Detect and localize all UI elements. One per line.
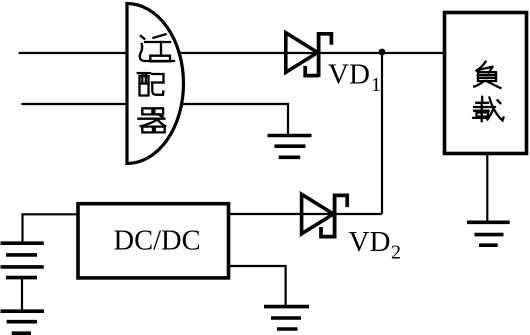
adapter label char 适: [140, 34, 174, 61]
load box: [445, 13, 527, 154]
wire: battery positive to DC/DC input: [23, 214, 80, 243]
ground under load: [467, 222, 510, 245]
wire: DC/DC lower output to ground: [229, 266, 286, 305]
ground under battery: [1, 311, 45, 333]
node: junction dot: [379, 49, 386, 56]
svg-text:VD: VD: [328, 59, 370, 91]
wire: lower input line to adapter: [21, 103, 127, 105]
wire: load box to ground: [486, 154, 488, 223]
ground under DC/DC lower output: [264, 307, 309, 329]
adapter label char 器: [138, 108, 165, 132]
diode VD2 (Schottky): [302, 194, 348, 239]
label DC/DC: [114, 226, 201, 257]
adapter label char 配: [138, 73, 164, 95]
diode VD1 (Schottky): [286, 32, 332, 77]
svg-text:2: 2: [391, 241, 401, 263]
load label char 载: [473, 97, 503, 121]
svg-text:DC/DC: DC/DC: [114, 226, 201, 257]
svg-text:VD: VD: [349, 226, 391, 258]
battery BT: [1, 243, 44, 277]
wire: DC/DC upper output through VD2 to junction riser: [229, 213, 383, 215]
wire: battery negative to ground: [21, 278, 23, 311]
svg-text:1: 1: [371, 74, 381, 96]
wire: junction down to VD2 cathode line: [381, 53, 383, 215]
wire: adapter upper output to VD1 anode, through diode to load: [178, 52, 444, 54]
adapter block "适配器" (D-shape): [127, 4, 184, 164]
load label char 负: [474, 62, 500, 88]
DC/DC converter box: [78, 204, 229, 278]
label VD2: [349, 226, 402, 263]
label VD1: [328, 59, 381, 97]
ground under adapter lower output: [268, 136, 312, 158]
wire: adapter lower output going right: [181, 104, 288, 136]
wire: upper input line to adapter: [19, 52, 127, 54]
